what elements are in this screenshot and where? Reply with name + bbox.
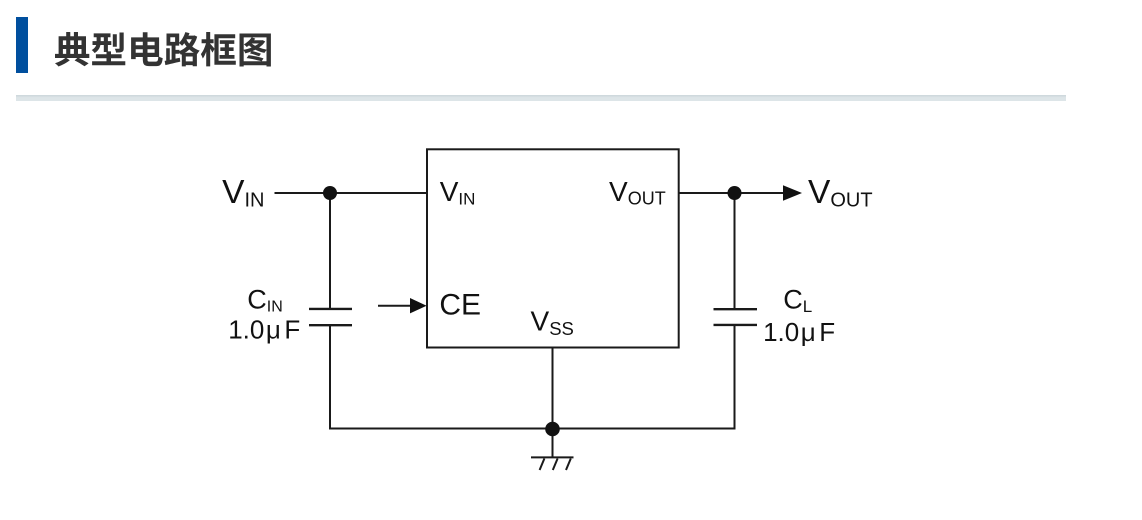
svg-text:CL: CL [783, 284, 812, 316]
svg-text:VOUT: VOUT [609, 176, 666, 208]
junction node B (VOUT) [728, 186, 742, 200]
junction node A (VIN) [323, 186, 337, 200]
divider band [16, 95, 1066, 102]
wire: node to CL top [734, 193, 736, 308]
section heading 典型电路框图 (as paths) [0, 0, 300, 90]
wire: VSS pin down [552, 348, 554, 429]
wire: VIN input to IC [275, 192, 428, 194]
wire: CIN bottom to ground rail [329, 326, 331, 430]
wire: CE arrow line [378, 305, 412, 307]
wire: CL bottom to ground rail [734, 326, 736, 430]
svg-text:1.0μF: 1.0μF [763, 317, 835, 347]
junction node C (ground rail) [545, 422, 560, 437]
IC block U1 [427, 149, 679, 347]
ground symbol [531, 457, 574, 470]
wire: node to CIN top [329, 193, 331, 308]
capacitor CIN plates [309, 309, 352, 325]
svg-text:VOUT: VOUT [808, 174, 873, 212]
CE arrowhead [410, 298, 427, 313]
wire: ground rail [329, 428, 736, 430]
svg-text:CIN: CIN [247, 285, 282, 316]
svg-text:VIN: VIN [440, 176, 476, 208]
svg-text:VSS: VSS [531, 306, 574, 340]
capacitor CL plates [714, 309, 758, 325]
svg-text:1.0μF: 1.0μF [228, 314, 300, 344]
section title bar [16, 17, 28, 73]
svg-text:CE: CE [439, 289, 481, 322]
svg-text:VIN: VIN [222, 174, 264, 212]
VOUT arrowhead [783, 185, 802, 201]
wire: VOUT from IC to arrow [679, 192, 786, 194]
wire: ground stem [552, 429, 554, 458]
